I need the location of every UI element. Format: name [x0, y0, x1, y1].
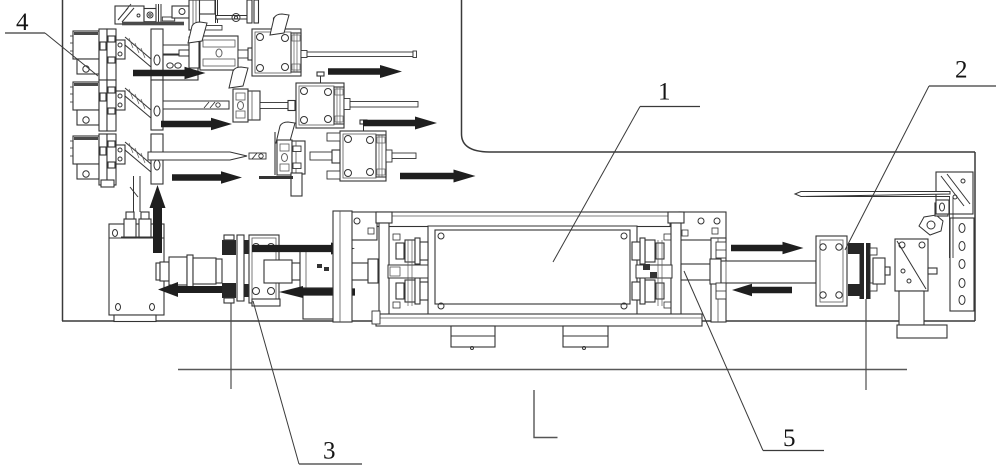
svg-text:4: 4 [16, 9, 29, 36]
svg-text:5: 5 [783, 425, 796, 452]
svg-text:1: 1 [658, 79, 671, 106]
svg-text:3: 3 [323, 438, 336, 465]
svg-text:2: 2 [955, 57, 968, 84]
